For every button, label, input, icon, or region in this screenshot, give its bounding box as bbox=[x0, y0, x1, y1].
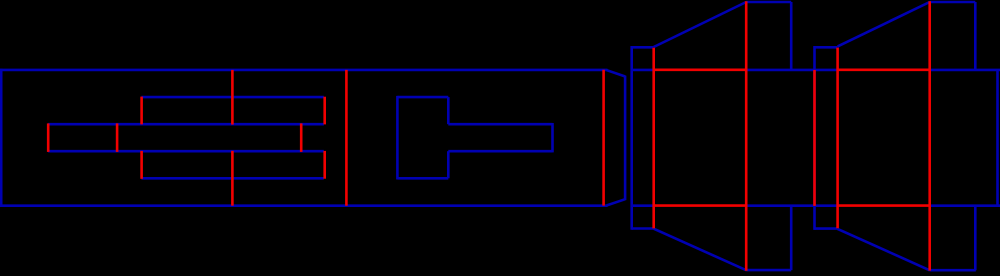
node R6a: mid sleeve right end upper (red) bbox=[323, 97, 326, 125]
node R11: collar2 left edge overlay (red) bbox=[813, 70, 816, 206]
node R6b: mid sleeve right end lower (red) bbox=[323, 151, 326, 179]
wire: red axis top funnel1 bbox=[654, 69, 747, 72]
wire: mid sleeve bottom edge bbox=[141, 177, 323, 180]
wire: funnel2 diagonal top bbox=[838, 2, 930, 46]
wire: axis line top through head1 bbox=[746, 69, 837, 72]
wire: key block right edge upper bbox=[447, 97, 450, 124]
wire: collar2 top edge bbox=[815, 46, 838, 49]
wire: head2 right edge upper bbox=[974, 2, 977, 70]
wire: funnel1 diagonal top bbox=[654, 2, 747, 47]
wire: funnel2 diagonal bottom bbox=[838, 229, 930, 270]
node R12: collar2 right edge (red) bbox=[836, 48, 839, 229]
wire: left border nub bottom bbox=[0, 150, 3, 153]
wire: inner tube bottom edge bbox=[48, 150, 324, 153]
wire: outer barrel top edge bbox=[0, 69, 608, 72]
wire: axis line bottom through head1 bbox=[746, 204, 837, 207]
wire: axis line bottom right tail bbox=[930, 204, 1000, 207]
wire: barrel left end cap bbox=[0, 69, 3, 207]
wire: key block bottom edge bbox=[397, 177, 448, 180]
wire: key bar right end bbox=[551, 123, 554, 152]
wire: collar2 bottom edge bbox=[815, 227, 838, 230]
node R13: head2 left edge (red) bbox=[928, 1, 931, 270]
wire: key bar bottom edge bbox=[448, 150, 552, 153]
node R9: collar1 right edge (red) bbox=[652, 48, 655, 229]
wire: key block left edge bbox=[396, 96, 399, 180]
wire: collar1 interior line top bbox=[632, 69, 654, 72]
wire: neck chamfer top bbox=[607, 70, 625, 76]
wire: head1 right edge lower bbox=[790, 206, 793, 270]
wire: red axis bottom funnel1 bbox=[654, 204, 747, 207]
node R8: barrel right divider (red) bbox=[602, 70, 605, 206]
wire: key bar top edge bbox=[448, 123, 552, 126]
node R2: inner tube divider (red) bbox=[116, 123, 119, 151]
wire: right end vertical bbox=[996, 70, 999, 206]
wire: key block top edge bbox=[397, 96, 448, 99]
wire: head2 bottom edge bbox=[930, 269, 976, 272]
wire: axis line top right tail bbox=[930, 69, 1000, 72]
node R3b: mid sleeve left end lower (red) bbox=[140, 151, 143, 179]
node R10: head1 left edge (red) bbox=[745, 1, 748, 270]
wire: neck vertical bbox=[624, 76, 627, 201]
wire: collar1 left edge bbox=[630, 46, 633, 230]
wire: head2 top edge bbox=[930, 1, 976, 4]
node R7: barrel full divider (red) bbox=[345, 70, 348, 206]
wire: neck chamfer bottom bbox=[607, 199, 625, 205]
wire: funnel1 diagonal bottom bbox=[654, 229, 747, 271]
wire: collar1 top edge bbox=[632, 46, 654, 49]
wire: head1 right edge upper bbox=[790, 2, 793, 70]
wire: outer barrel bottom edge bbox=[0, 204, 608, 207]
wire: collar2 left edge bbox=[813, 46, 816, 230]
wire: head1 bottom edge bbox=[746, 269, 791, 272]
wire: head2 right edge lower bbox=[974, 206, 977, 271]
wire: inner tube top edge bbox=[48, 123, 324, 126]
wire: mid sleeve top edge bbox=[141, 96, 323, 99]
wire: red axis top funnel2 bbox=[838, 69, 930, 72]
wire: collar1 bottom edge bbox=[632, 227, 654, 230]
wire: collar1 interior line bottom bbox=[632, 204, 654, 207]
node R3a: mid sleeve left end upper (red) bbox=[140, 97, 143, 125]
node R1: inner tube left end (red) bbox=[47, 123, 50, 151]
wire: red axis bottom funnel2 bbox=[838, 204, 930, 207]
wire: head1 top edge bbox=[746, 1, 791, 4]
wire: key block right edge lower bbox=[447, 151, 450, 178]
node R4a: barrel divider upper (red) bbox=[231, 70, 234, 125]
wire: left border nub top bbox=[0, 123, 3, 126]
node R4b: barrel divider lower (red) bbox=[231, 151, 234, 206]
node R5: inner tube right divider (red) bbox=[300, 123, 303, 151]
